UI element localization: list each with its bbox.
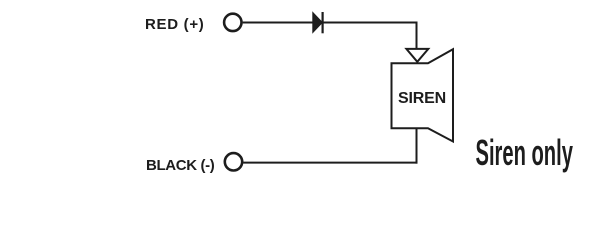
terminal circle (RED +) — [224, 14, 241, 31]
diode D1 anode triangle — [313, 13, 323, 33]
svg-text:BLACK (-): BLACK (-) — [146, 157, 215, 174]
terminal circle (BLACK -) — [225, 153, 242, 170]
wire from siren bottom down — [416, 128, 418, 163]
siren speaker body U1 — [392, 49, 454, 141]
open arrowhead into siren — [406, 49, 428, 62]
diode D1 cathode bar — [322, 12, 324, 33]
wire from BLACK terminal to siren — [243, 162, 417, 164]
svg-text:SIREN: SIREN — [398, 90, 446, 107]
svg-text:Siren only: Siren only — [476, 134, 574, 173]
wire from RED terminal to siren corner — [243, 22, 418, 24]
svg-text:RED (+): RED (+) — [145, 16, 204, 33]
wire down to siren arrow — [416, 22, 418, 50]
